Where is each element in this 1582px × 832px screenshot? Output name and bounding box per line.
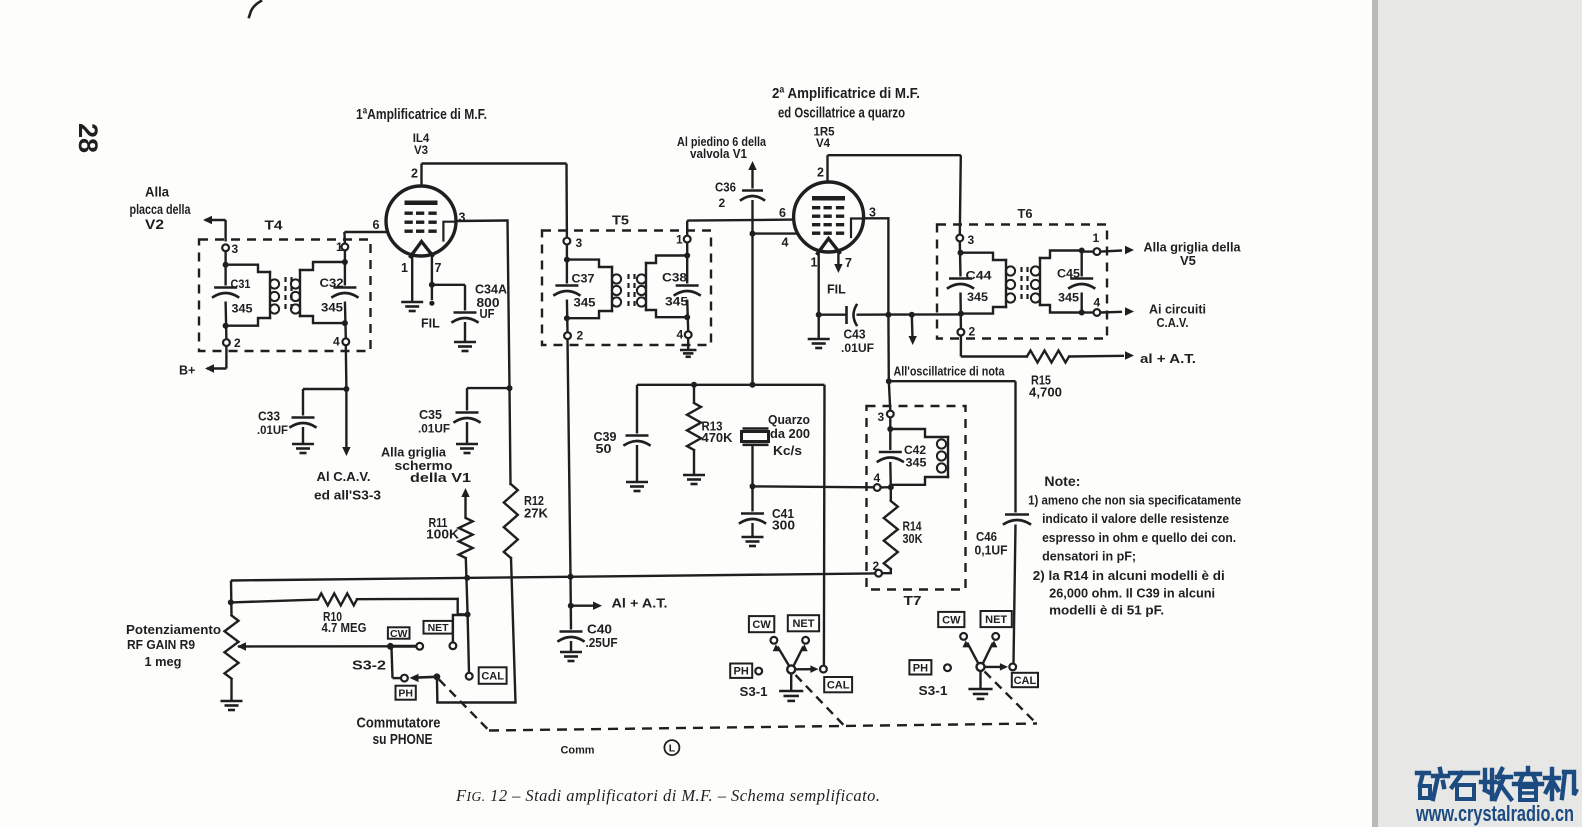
transformer T5 box [542, 231, 711, 346]
wire T6 pin1 link [1082, 250, 1094, 252]
svg-text:C45: C45 [1057, 267, 1080, 281]
svg-text:C36: C36 [715, 181, 736, 195]
svg-text:4: 4 [333, 335, 340, 349]
scan curl mark [249, 1, 261, 17]
wire T4 pin4 down [343, 345, 349, 449]
svg-text:CAL: CAL [1014, 675, 1037, 687]
S3-2 arm to CW [390, 645, 415, 648]
svg-text:345: 345 [665, 295, 688, 309]
svg-text:www.crystalradio.cn: www.crystalradio.cn [1415, 801, 1574, 826]
svg-text:S3-2: S3-2 [352, 659, 386, 673]
T4 node right top [342, 259, 348, 265]
S3-1b arm CAL [985, 663, 1008, 671]
label Al piedino 6 della [677, 135, 767, 149]
arrow Al CAV [342, 447, 350, 456]
dashed link S3-1b [985, 672, 1036, 723]
svg-text:V5: V5 [1180, 253, 1196, 268]
svg-text:Note:: Note: [1044, 474, 1080, 489]
T6 pin4 terminal [1094, 296, 1101, 316]
S3-1b arm CW [962, 640, 978, 663]
T7 pin2 terminal [873, 559, 882, 577]
V3 grid lead internal [443, 222, 455, 241]
svg-text:6: 6 [779, 206, 786, 220]
svg-text:3: 3 [869, 206, 876, 220]
S3-1b PH label [909, 660, 931, 674]
svg-text:IL4: IL4 [413, 133, 430, 145]
T4 secondary coil [291, 262, 345, 323]
label T7 [904, 593, 922, 608]
capacitor C43 [841, 305, 874, 355]
label T6 [1018, 206, 1033, 221]
svg-text:NET: NET [792, 618, 814, 630]
wire V3 pin3 down [508, 221, 511, 485]
svg-text:NET: NET [428, 622, 450, 634]
ground C41 [742, 537, 764, 546]
wire pin7 to C34A [432, 285, 465, 311]
svg-text:C32: C32 [320, 276, 344, 290]
ground S3-1a [779, 691, 803, 701]
resistor R10 [318, 593, 367, 635]
svg-text:1: 1 [1093, 231, 1100, 245]
V3 plate [405, 201, 438, 206]
node S3-2 CAL junction [465, 612, 471, 618]
T4 primary coil [226, 265, 280, 326]
svg-text:1: 1 [676, 233, 683, 247]
svg-text:2: 2 [873, 559, 880, 573]
T7 node top [887, 426, 893, 432]
svg-text:0,1UF: 0,1UF [975, 544, 1008, 558]
wire V3 pin7 [432, 255, 442, 285]
svg-text:4.7 MEG: 4.7 MEG [322, 621, 367, 635]
capacitor C42 [878, 443, 927, 470]
svg-text:RF GAIN R9: RF GAIN R9 [127, 637, 195, 652]
label valvola V1 [690, 147, 747, 161]
svg-text:.01UF: .01UF [418, 422, 450, 436]
node C35 tap [507, 385, 513, 391]
capacitor C34A [453, 283, 508, 323]
S3-1a CAL contact [820, 666, 827, 673]
T4 node left top [223, 262, 229, 268]
label Commutatore su PHONE [357, 715, 441, 749]
svg-text:C31: C31 [231, 277, 251, 291]
ground R13 [683, 475, 705, 484]
label Alla placca della V2 [130, 185, 191, 233]
T5 pin1 terminal [676, 233, 691, 247]
svg-text:V2: V2 [145, 216, 164, 232]
T6 node left bottom [958, 311, 964, 317]
label V4 name [816, 138, 831, 150]
svg-text:2: 2 [234, 336, 241, 350]
label 1R5 [813, 127, 835, 139]
T5 core [629, 274, 635, 306]
ground pot [221, 701, 243, 710]
svg-text:345: 345 [906, 456, 927, 470]
capacitor C41 [740, 486, 795, 532]
pot wiper [237, 642, 390, 650]
node quartz top [750, 382, 756, 388]
svg-text:470K: 470K [702, 431, 733, 445]
svg-text:7: 7 [845, 256, 852, 270]
wire T5 left branch [566, 245, 569, 332]
svg-text:4: 4 [782, 236, 789, 250]
wire V4 pin1 [811, 250, 819, 315]
capacitor C33 [257, 410, 316, 438]
wire V3 pin1 to ground [411, 253, 413, 303]
svg-text:1: 1 [401, 261, 408, 275]
S3-1b CAL label [1012, 673, 1038, 687]
svg-text:CW: CW [942, 614, 961, 626]
T4 core [286, 277, 292, 313]
svg-text:C37: C37 [572, 272, 595, 286]
capacitor C39 [594, 430, 650, 456]
node C43 pin3 cross [885, 312, 891, 318]
arrow griglia schermo [461, 488, 469, 497]
arrow down stub [909, 315, 917, 345]
svg-text:CW: CW [752, 619, 771, 631]
scan edge line [1372, 0, 1378, 827]
resistor R15 [1027, 351, 1069, 400]
page number 28 [73, 123, 103, 153]
V4 grids [812, 206, 844, 235]
ground T5 pin4 [680, 350, 697, 357]
tube V3 envelope [386, 186, 456, 256]
wire T6 pin2 down [961, 336, 1027, 357]
label V3 name [414, 145, 428, 157]
heading 2nd amplifier line1 [772, 85, 920, 102]
svg-text:3: 3 [232, 242, 239, 256]
wire T5 right branch [687, 243, 688, 331]
wire to CAV circuits [1101, 307, 1135, 315]
resistor R12 [504, 484, 548, 558]
T6 pin3 terminal [956, 233, 974, 247]
wire V3 FIL stub [421, 285, 440, 331]
svg-text:4,700: 4,700 [1029, 386, 1062, 400]
S3-1b CAL contact [1009, 664, 1016, 671]
svg-text:.01UF: .01UF [257, 423, 288, 437]
V3 grids [405, 212, 437, 233]
S3-1b pivot [977, 663, 985, 671]
wire to V5 grid [1101, 246, 1135, 254]
svg-text:Al + A.T.: Al + A.T. [612, 596, 668, 611]
svg-text:1) ameno che non sia specifica: 1) ameno che non sia specificatamente [1028, 493, 1241, 508]
S3-1a pivot [787, 665, 795, 673]
dashed link S3-1a [796, 675, 846, 727]
rail node R11 [464, 575, 470, 581]
svg-text:FIG. 12 – Stadi amplificatori: FIG. 12 – Stadi amplificatori di M.F. – … [455, 786, 880, 805]
wire R15 to AT [1069, 351, 1134, 359]
T6 node right top [1079, 248, 1085, 254]
wire T5 pin2 down to rail [568, 339, 571, 576]
T5 node left bottom [564, 315, 570, 321]
svg-text:2: 2 [411, 167, 418, 181]
wire C39 branch [636, 385, 638, 434]
T4 node left bottom [223, 323, 229, 329]
label T5 [612, 213, 629, 228]
S3-1b ground lead [979, 671, 981, 688]
svg-text:S3-1: S3-1 [919, 684, 948, 698]
label All oscillatrice [894, 365, 1006, 379]
svg-text:PH: PH [734, 666, 749, 678]
svg-text:espresso in ohm e quello dei c: espresso in ohm e quello dei con. [1042, 530, 1236, 545]
svg-text:Quarzo: Quarzo [768, 413, 810, 427]
S3-1a NET contact [802, 637, 809, 644]
capacitor C40 [559, 623, 618, 651]
T7 pin3 terminal [878, 410, 894, 424]
capacitor C35 [418, 408, 480, 436]
svg-text:.01UF: .01UF [841, 341, 874, 355]
wire common down [436, 677, 439, 703]
wire V3 pin2 to T5 pin3 [411, 164, 567, 238]
ground C40 [560, 652, 582, 661]
wire C35 to ground [466, 422, 468, 444]
wire pot to ground [230, 679, 232, 701]
svg-text:2) la R14 in alcuni modelli è: 2) la R14 in alcuni modelli è di [1033, 568, 1225, 583]
T7 pin4 terminal [874, 471, 881, 491]
ground C33 [292, 444, 314, 453]
T6 pin1 terminal [1093, 231, 1101, 255]
S3-2 CW label [388, 627, 410, 639]
svg-text:C.A.V.: C.A.V. [1157, 315, 1189, 330]
transformer T6 box [937, 225, 1107, 339]
caption [455, 786, 880, 805]
capacitor C44 [948, 269, 992, 305]
dashed Comm rail [489, 724, 1037, 731]
label S3-2 [352, 659, 386, 673]
S3-1a PH label [730, 664, 752, 678]
T5 pin3 terminal [564, 236, 583, 250]
svg-text:della V1: della V1 [410, 470, 471, 485]
wire to C33 [303, 389, 346, 416]
wire grid4 line [753, 234, 798, 250]
wire T4 left branch [224, 251, 227, 339]
S3-1a arm CW [773, 644, 789, 666]
wire pivot to PH [392, 648, 401, 678]
T5 primary coil [567, 260, 621, 319]
T5 node right bottom [684, 314, 690, 320]
transformer T7 box [867, 406, 966, 590]
svg-text:2ª Amplificatrice di M.F.: 2ª Amplificatrice di M.F. [772, 85, 920, 102]
wire R13 ground [693, 450, 695, 475]
watermark url [1415, 801, 1574, 826]
wire C36 down [751, 200, 753, 234]
wire to C35 [467, 388, 510, 410]
svg-text:T4: T4 [265, 218, 284, 233]
svg-text:27K: 27K [524, 507, 548, 521]
T4 pin3 terminal [222, 242, 238, 256]
V4 grid lead internal [851, 219, 862, 238]
svg-text:345: 345 [967, 290, 988, 304]
svg-text:3: 3 [878, 410, 885, 424]
svg-text:V4: V4 [816, 138, 831, 150]
tube V4 envelope [794, 182, 864, 252]
wire V4 pin3 down [888, 218, 890, 410]
S3-1b PH contact [944, 664, 951, 671]
svg-text:indicato il valore delle resis: indicato il valore delle resistenze [1042, 511, 1229, 526]
resistor R14 [884, 487, 923, 569]
wire T6 left branch [960, 242, 961, 329]
svg-text:C38: C38 [662, 271, 687, 285]
node R10 tap [228, 599, 234, 605]
ground S3-1b [968, 689, 992, 699]
S3-2 PH contact [401, 675, 408, 682]
svg-text:T7: T7 [904, 593, 922, 608]
svg-text:50: 50 [596, 442, 612, 456]
ground C39 [626, 482, 648, 491]
svg-text:.25UF: .25UF [586, 636, 618, 650]
svg-text:Alla: Alla [145, 185, 169, 200]
svg-text:ed all'S3-3: ed all'S3-3 [314, 488, 381, 503]
svg-text:1ªAmplificatrice di M.F.: 1ªAmplificatrice di M.F. [356, 106, 487, 123]
wire T7 left branch [889, 418, 892, 488]
capacitor C32 [320, 276, 358, 315]
heading 2nd amplifier line2 [778, 106, 905, 122]
S3-1a arm NET [794, 644, 808, 666]
svg-text:densatori in pF;: densatori in pF; [1042, 549, 1136, 564]
S3-1b NET contact [992, 633, 999, 640]
label Alla griglia schermo della V1 [381, 445, 471, 486]
S3-1a arm CAL [795, 665, 818, 673]
T6 node right bottom [1079, 310, 1085, 316]
node R13 top [691, 382, 697, 388]
svg-text:placca della: placca della [130, 202, 191, 217]
svg-text:3: 3 [459, 211, 466, 225]
wire B+ from T4 pin2 [205, 346, 226, 373]
svg-text:2: 2 [719, 196, 726, 210]
svg-text:PH: PH [398, 687, 413, 699]
S3-2 CAL contact [466, 673, 473, 680]
svg-text:ed Oscillatrice a quarzo: ed Oscillatrice a quarzo [778, 106, 905, 122]
T6 node left top [958, 250, 964, 256]
S3-1b CW label [938, 612, 964, 627]
svg-text:C35: C35 [419, 408, 442, 422]
main rail [231, 573, 875, 580]
wire V4 pin7 FIL [827, 251, 852, 297]
T6 core [1022, 267, 1028, 302]
resistor R11 [426, 516, 473, 558]
svg-text:C33: C33 [258, 410, 280, 424]
wire C41 ground [751, 523, 753, 537]
svg-text:345: 345 [1058, 291, 1079, 305]
V4 plate [812, 196, 845, 201]
wire R11 to junction [466, 558, 468, 615]
V3 filament [411, 242, 433, 257]
svg-text:PH: PH [913, 662, 928, 674]
ground V4 pin1 [808, 339, 830, 348]
svg-text:26,000 ohm. Il C39 in alcuni: 26,000 ohm. Il C39 in alcuni [1049, 586, 1215, 601]
S3-2 PH label [396, 686, 416, 700]
wire T4 pin1 to V3 grid [344, 218, 387, 243]
capacitor C31 [213, 277, 253, 316]
svg-text:FIL: FIL [421, 317, 440, 331]
S3-2 common node [434, 673, 441, 680]
S3-1a CAL label [824, 677, 852, 692]
label S3-1 first [740, 685, 768, 699]
notes text [1028, 474, 1241, 618]
svg-text:Comm: Comm [561, 745, 595, 757]
S3-1a NET label [788, 615, 819, 631]
svg-text:UF: UF [480, 307, 495, 321]
svg-text:Potenziamento: Potenziamento [126, 622, 221, 637]
capacitor C38 [662, 271, 700, 309]
wire R12 to switch [437, 558, 515, 703]
svg-text:su PHONE: su PHONE [373, 731, 433, 748]
wire T6 pin4 link [1082, 311, 1094, 313]
S3-2 NET contact [450, 642, 457, 649]
wire R10 left lead [231, 600, 318, 603]
S3-2 CAL label [479, 667, 507, 684]
ground C34A [454, 342, 476, 351]
S3-1a PH contact [755, 668, 762, 675]
T5 node right top [684, 253, 690, 259]
ground V3 pin1 [401, 261, 423, 311]
T7 coil [890, 429, 948, 485]
T4 pin2 terminal [223, 336, 241, 350]
S3-1a CW contact [771, 637, 778, 644]
wire rail to C40 [569, 577, 572, 630]
label T4 [265, 218, 284, 233]
T5 secondary coil [637, 256, 687, 318]
svg-text:C40: C40 [587, 623, 612, 637]
svg-text:C44: C44 [966, 269, 992, 283]
svg-text:1: 1 [336, 240, 343, 254]
S3-2 arm to common [410, 674, 437, 682]
wire V4 pin3 [864, 206, 889, 220]
T6 secondary coil [1031, 251, 1082, 313]
svg-text:T6: T6 [1018, 206, 1033, 221]
ground C35 [456, 444, 478, 453]
wire R14 to pin2 [882, 569, 891, 573]
svg-text:All'oscillatrice di nota: All'oscillatrice di nota [894, 365, 1006, 379]
wire pin1 to C43 [819, 314, 846, 316]
svg-text:3: 3 [968, 233, 975, 247]
svg-text:C43: C43 [844, 328, 866, 342]
capacitor C37 [554, 272, 595, 310]
svg-text:CAL: CAL [481, 671, 504, 683]
S3-1b arm NET [983, 640, 997, 663]
svg-text:T5: T5 [612, 213, 629, 228]
svg-text:S3-1: S3-1 [740, 685, 768, 699]
wire T6 right branch [1080, 251, 1082, 313]
svg-text:L: L [669, 743, 676, 755]
wire R13 top lead [693, 385, 695, 403]
wire quartz column upper [751, 234, 753, 385]
svg-text:1R5: 1R5 [813, 127, 835, 139]
svg-text:100K: 100K [426, 528, 459, 542]
svg-text:CW: CW [390, 628, 408, 640]
wire V2 to T4 pin3 [203, 216, 226, 242]
S3-2 pivot [387, 643, 394, 650]
capacitor C45 [1057, 267, 1094, 305]
wire V4 pin1 to ground [818, 315, 820, 339]
svg-text:Commutatore: Commutatore [357, 715, 441, 732]
svg-text:2: 2 [577, 329, 584, 343]
wire C46 down to CAL [1014, 525, 1016, 664]
capacitor C46 [975, 515, 1031, 558]
node C41 top [750, 483, 756, 489]
wire V4 pin2 to T6 pin3 [817, 155, 961, 234]
transformer T4 box [199, 240, 371, 352]
node oscillator tap [886, 378, 892, 384]
S3-1a CW label [749, 616, 774, 632]
svg-text:2: 2 [969, 325, 976, 339]
T4 pin1 terminal [336, 240, 348, 254]
label Ai circuiti CAV [1149, 302, 1206, 331]
svg-text:2: 2 [817, 166, 824, 180]
T6 pin2 terminal [958, 325, 976, 339]
arrow Al+AT [571, 596, 668, 611]
wire T7 pin4 line [753, 485, 874, 488]
svg-text:modelli è di 51 pF.: modelli è di 51 pF. [1049, 603, 1164, 618]
